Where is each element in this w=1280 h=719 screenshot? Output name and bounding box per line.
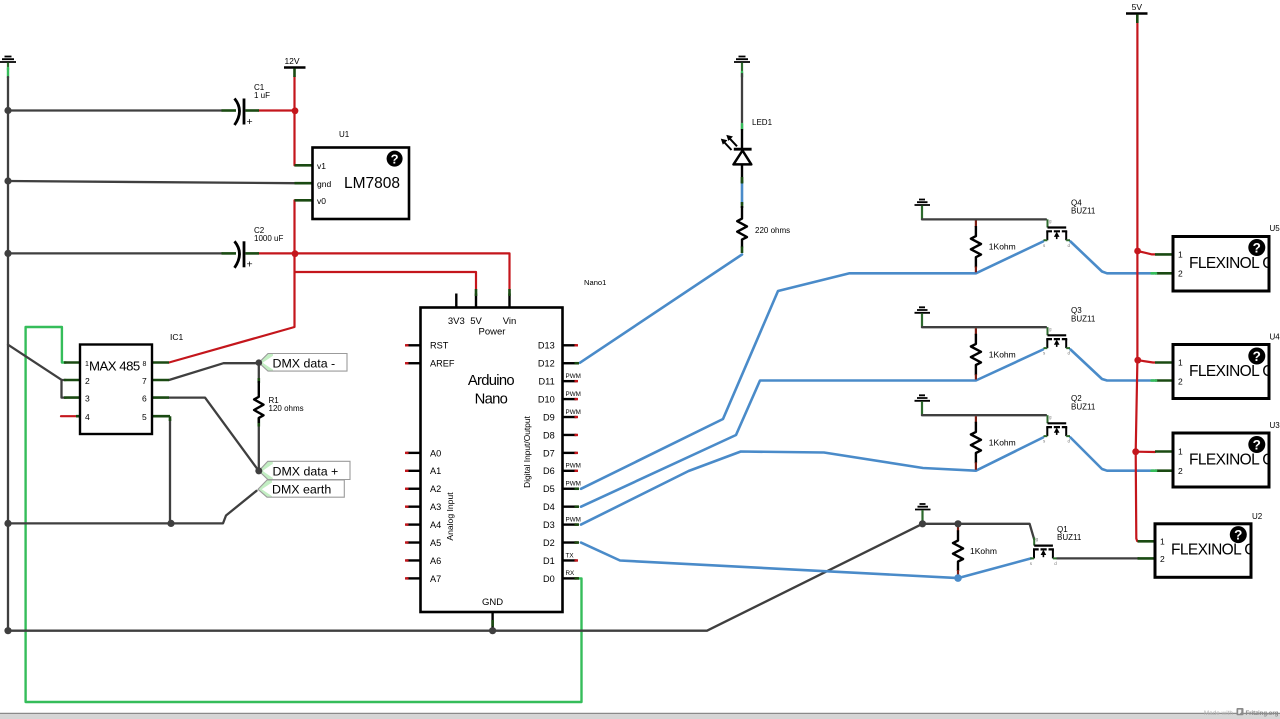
svg-text:7: 7 [142, 376, 147, 386]
svg-text:PWM: PWM [566, 391, 581, 398]
svg-text:?: ? [1253, 349, 1261, 364]
svg-text:RX: RX [566, 570, 576, 577]
svg-text:BUZ11: BUZ11 [1071, 314, 1096, 323]
svg-text:1: 1 [1178, 447, 1183, 457]
svg-text:Vin: Vin [503, 316, 517, 327]
svg-text:2: 2 [1178, 376, 1183, 386]
svg-text:D12: D12 [538, 359, 555, 369]
svg-text:v0: v0 [317, 196, 326, 206]
svg-text:A1: A1 [430, 466, 441, 476]
svg-text:Power: Power [479, 327, 506, 338]
svg-text:D1: D1 [543, 556, 555, 566]
svg-text:+: + [247, 259, 253, 271]
svg-text:120 ohms: 120 ohms [269, 404, 304, 413]
svg-text:12V: 12V [284, 56, 299, 66]
svg-text:FLEXINOL C: FLEXINOL C [1171, 542, 1255, 559]
svg-text:+: + [247, 116, 253, 128]
svg-text:8: 8 [143, 361, 147, 368]
svg-text:D9: D9 [543, 412, 555, 422]
svg-text:PWM: PWM [566, 463, 581, 470]
svg-text:LED1: LED1 [752, 118, 773, 127]
svg-text:PWM: PWM [566, 373, 581, 380]
svg-text:4: 4 [85, 412, 90, 422]
svg-text:1: 1 [1178, 358, 1183, 368]
svg-text:3: 3 [85, 394, 90, 404]
svg-text:U2: U2 [1252, 512, 1263, 521]
svg-text:BUZ11: BUZ11 [1057, 533, 1082, 542]
svg-text:?: ? [391, 152, 399, 167]
svg-text:1 uF: 1 uF [254, 91, 270, 100]
svg-text:1Kohm: 1Kohm [989, 349, 1016, 359]
svg-text:LM7808: LM7808 [344, 175, 400, 192]
svg-text:5V: 5V [470, 316, 482, 327]
svg-text:D6: D6 [543, 466, 555, 476]
svg-text:1: 1 [85, 361, 89, 368]
svg-text:2: 2 [85, 376, 90, 386]
svg-text:IC1: IC1 [170, 332, 184, 342]
svg-text:A5: A5 [430, 538, 441, 548]
svg-text:Fritzing.org: Fritzing.org [1246, 710, 1279, 717]
svg-text:1000 uF: 1000 uF [254, 234, 283, 243]
svg-text:1: 1 [1178, 249, 1183, 259]
svg-text:PWM: PWM [566, 409, 581, 416]
svg-text:BUZ11: BUZ11 [1071, 207, 1096, 216]
svg-text:D7: D7 [543, 448, 555, 458]
svg-text:FLEXINOL C: FLEXINOL C [1189, 452, 1273, 469]
svg-text:DMX data -: DMX data - [273, 357, 336, 371]
svg-text:AREF: AREF [430, 359, 455, 369]
svg-text:U1: U1 [339, 130, 350, 139]
svg-text:U5: U5 [1270, 224, 1280, 233]
svg-text:2: 2 [1178, 268, 1183, 278]
svg-text:?: ? [1253, 241, 1261, 256]
svg-text:D13: D13 [538, 341, 555, 351]
svg-text:D2: D2 [543, 538, 555, 548]
svg-text:Digital Input/Output: Digital Input/Output [522, 415, 532, 487]
svg-text:DMX earth: DMX earth [272, 483, 331, 497]
svg-text:FLEXINOL C: FLEXINOL C [1189, 255, 1273, 272]
svg-text:gnd: gnd [317, 179, 331, 189]
svg-text:A3: A3 [430, 502, 441, 512]
svg-text:5V: 5V [1132, 2, 1143, 12]
svg-text:D4: D4 [543, 502, 555, 512]
svg-text:U3: U3 [1270, 421, 1280, 430]
svg-text:2: 2 [1178, 466, 1183, 476]
svg-text:5: 5 [142, 412, 147, 422]
svg-text:D5: D5 [543, 484, 555, 494]
svg-text:v1: v1 [317, 161, 326, 171]
svg-text:A0: A0 [430, 448, 441, 458]
svg-text:6: 6 [142, 394, 147, 404]
svg-text:FLEXINOL C: FLEXINOL C [1189, 363, 1273, 380]
svg-text:Made with: Made with [1204, 710, 1234, 717]
svg-text:PWM: PWM [566, 481, 581, 488]
svg-text:D11: D11 [539, 377, 555, 387]
svg-text:1Kohm: 1Kohm [989, 242, 1016, 252]
svg-text:MAX 485: MAX 485 [89, 359, 140, 374]
svg-text:GND: GND [482, 597, 503, 608]
svg-text:TX: TX [566, 552, 575, 559]
svg-text:U4: U4 [1270, 333, 1280, 342]
svg-text:?: ? [1253, 438, 1261, 453]
svg-text:D3: D3 [543, 520, 555, 530]
svg-text:1Kohm: 1Kohm [989, 437, 1016, 447]
svg-text:D8: D8 [543, 430, 555, 440]
svg-text:A2: A2 [430, 484, 441, 494]
svg-text:D10: D10 [538, 394, 555, 404]
svg-text:Arduino: Arduino [468, 373, 515, 389]
svg-text:A7: A7 [430, 574, 441, 584]
svg-text:BUZ11: BUZ11 [1071, 402, 1096, 411]
svg-text:1Kohm: 1Kohm [970, 546, 997, 556]
svg-text:1: 1 [1160, 536, 1165, 546]
svg-text:2: 2 [1160, 554, 1165, 564]
svg-text:PWM: PWM [566, 516, 581, 523]
svg-text:A6: A6 [430, 556, 441, 566]
svg-text:RST: RST [430, 341, 449, 351]
svg-text:220 ohms: 220 ohms [755, 226, 790, 235]
svg-text:D0: D0 [543, 574, 555, 584]
svg-text:DMX data +: DMX data + [273, 465, 339, 479]
svg-text:Nano1: Nano1 [584, 278, 606, 287]
svg-text:Analog Input: Analog Input [445, 492, 455, 541]
svg-text:?: ? [1234, 528, 1242, 543]
svg-text:A4: A4 [430, 520, 441, 530]
svg-text:Nano: Nano [475, 392, 508, 408]
svg-text:3V3: 3V3 [448, 316, 465, 327]
